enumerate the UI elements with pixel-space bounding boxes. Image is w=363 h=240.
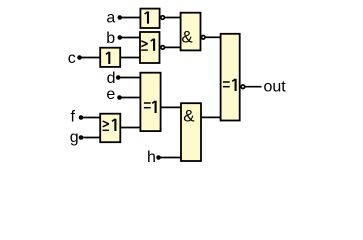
wire a to U1 [120, 17, 140, 19]
OR gate U5 (f, g) [100, 114, 120, 143]
svg-text:d: d [107, 70, 116, 87]
bubble U8 output [241, 85, 245, 89]
XNOR gate U8 (output gate '=1' with bubble) [221, 34, 240, 121]
wire c to U3 [80, 57, 101, 59]
bubble U2 output [161, 46, 165, 50]
wire U2 to U4 [165, 46, 181, 48]
input d terminal dot [116, 75, 121, 80]
input a terminal dot [118, 15, 123, 20]
svg-text:a: a [106, 10, 115, 27]
wire U4 to U8 [205, 36, 220, 38]
wire e to U6 [120, 97, 141, 99]
svg-text:g: g [70, 129, 79, 146]
wire U3 to U2 [120, 57, 140, 59]
buffer U3 (gate '1' for c) [100, 48, 120, 67]
AND gate U7 (bottom AND) [181, 103, 201, 161]
input g terminal dot [79, 135, 84, 140]
NAND gate U4 (top AND with bubble) [181, 13, 201, 51]
input b terminal dot [118, 35, 123, 40]
inverter U1 (NOT gate for a) [140, 9, 159, 28]
wire d to U6 [118, 77, 140, 79]
wire U5 to U6 [120, 127, 140, 129]
wire b to U2 [120, 37, 140, 39]
wire U8 to out [245, 86, 262, 88]
wire U1 to U4 [165, 17, 181, 19]
svg-text:e: e [106, 86, 115, 103]
svg-text:out: out [264, 78, 287, 95]
wire g to U5 [81, 137, 100, 139]
wire U7 to U8 [201, 116, 221, 118]
wire U6 to U7 [161, 106, 181, 108]
svg-text:&: & [183, 106, 195, 125]
input f terminal dot [79, 115, 84, 120]
svg-text:&: & [181, 27, 193, 46]
input c terminal dot [77, 55, 82, 60]
svg-text:f: f [71, 109, 76, 126]
wire f to U5 [81, 117, 100, 119]
XOR gate U6 (d, e, U5) [140, 73, 160, 131]
svg-text:c: c [68, 50, 76, 67]
svg-text:b: b [106, 30, 115, 47]
wire h to U7 [159, 157, 182, 159]
bubble U4 output [201, 36, 205, 40]
bubble U1 output [161, 16, 165, 20]
input h terminal dot [156, 155, 161, 160]
NOR gate U2 (b, c) [140, 32, 160, 63]
svg-text:h: h [147, 149, 156, 166]
input e terminal dot [117, 95, 122, 100]
